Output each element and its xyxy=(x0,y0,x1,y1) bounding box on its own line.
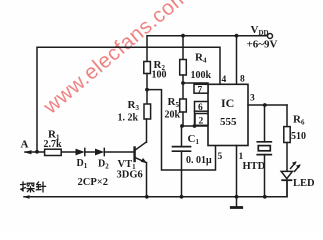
node R4 R5 pin7 junction dot xyxy=(181,81,185,85)
wire pin3 to R6 xyxy=(286,105,288,127)
svg-text:+6~9V: +6~9V xyxy=(247,39,278,51)
LED light arrows xyxy=(291,161,301,171)
label R4 xyxy=(195,52,207,65)
value label 2.7k xyxy=(44,139,63,150)
wire R6 to LED xyxy=(286,143,288,172)
svg-text:D2: D2 xyxy=(98,159,109,171)
label R2 xyxy=(154,59,166,72)
wire R2R3 node to 555 pin 5 xyxy=(147,90,216,170)
value label 555 xyxy=(220,116,237,128)
wire D2 to base of VT1 xyxy=(104,151,134,153)
svg-text:A: A xyxy=(21,139,29,151)
wire VDD rail to R4 xyxy=(182,36,184,60)
wire 555 pin 1 to ground xyxy=(236,146,238,208)
wire VDD top rail xyxy=(147,36,267,62)
svg-text:555: 555 xyxy=(220,116,237,128)
wire D1 to D2 xyxy=(85,151,95,153)
capacitor C1 xyxy=(173,126,191,197)
svg-text:2: 2 xyxy=(199,117,204,127)
wire ground rail xyxy=(23,180,287,199)
svg-text:HTD: HTD xyxy=(243,161,266,172)
svg-text:D1: D1 xyxy=(77,158,88,170)
wire pin6 box to pin2 line xyxy=(194,111,196,126)
diode D1 xyxy=(76,148,85,155)
label A xyxy=(21,139,29,151)
pin label 1 xyxy=(239,152,244,162)
svg-text:R1: R1 xyxy=(48,129,60,142)
wire R2 bottom to R3 top xyxy=(146,74,148,105)
ground symbol xyxy=(231,206,241,209)
value label 3DG6 xyxy=(117,170,143,181)
node R2 R3 junction dot xyxy=(145,88,149,92)
svg-text:510: 510 xyxy=(291,131,306,142)
value label 100 xyxy=(152,70,167,81)
svg-text:6: 6 xyxy=(198,103,203,113)
label VDD xyxy=(251,24,269,37)
resistor R1 xyxy=(45,149,62,155)
node R5 C1 junction dot xyxy=(180,124,184,128)
watermark www.elecfans.com xyxy=(39,0,194,119)
value label 510 xyxy=(291,131,306,142)
pin label 8 xyxy=(240,75,245,85)
label R3 xyxy=(128,99,140,112)
wire junction to 555 pin 7 xyxy=(183,82,208,84)
svg-text:5: 5 xyxy=(218,152,223,162)
wire R3 bottom to collector xyxy=(146,119,148,142)
pin label 4 xyxy=(222,75,227,85)
resistor R3 xyxy=(144,104,151,119)
pin box 6 xyxy=(195,102,209,114)
svg-text:3: 3 xyxy=(250,94,255,104)
node A junction dot xyxy=(35,150,39,154)
wire R4 to R5 xyxy=(182,75,184,99)
value label 20k xyxy=(165,110,181,121)
node pin1 ground rail junction dot xyxy=(235,195,239,199)
wire emitter to ground rail xyxy=(146,163,148,197)
value label +6~9V xyxy=(247,39,278,51)
pin box 7 xyxy=(194,84,208,95)
wire R5 bottom to pin2 line xyxy=(182,112,184,126)
svg-text:C1: C1 xyxy=(188,133,200,146)
value label 0.01u xyxy=(186,155,212,166)
wire 555 pin 3 output xyxy=(248,104,287,106)
label VT1 xyxy=(118,159,137,171)
svg-text:100: 100 xyxy=(152,70,167,81)
pin box 2 xyxy=(195,114,208,127)
value label 2CP x2 xyxy=(78,177,108,188)
node junction pin8 to VDD rail xyxy=(235,34,239,38)
label R6 xyxy=(293,114,305,127)
wire probe input with arrow tip xyxy=(24,150,45,154)
svg-text:8: 8 xyxy=(240,75,245,85)
label probe 探针 xyxy=(21,182,46,192)
resistor R2 xyxy=(144,62,151,74)
pin label 5 xyxy=(218,152,223,162)
svg-text:3DG6: 3DG6 xyxy=(117,170,143,181)
terminal VDD open circle xyxy=(268,34,273,39)
node HTD junction dot xyxy=(263,103,267,107)
LED D3 xyxy=(281,171,292,196)
svg-text:R3: R3 xyxy=(128,99,140,112)
diode D2 xyxy=(95,148,104,155)
node junction R4 to VDD rail xyxy=(181,34,185,38)
svg-text:100k: 100k xyxy=(191,70,212,81)
label C1 xyxy=(188,133,200,146)
label R1 xyxy=(48,129,60,142)
wire probe line A loop to pin 4 xyxy=(37,47,220,151)
label R5 xyxy=(168,96,180,109)
resistor R6 xyxy=(284,127,290,143)
node pin6 link junction dot xyxy=(193,124,197,128)
piezo sounder HTD xyxy=(257,105,271,197)
svg-text:20k: 20k xyxy=(165,110,181,121)
svg-text:VDD: VDD xyxy=(251,24,269,37)
svg-text:IC: IC xyxy=(221,96,234,110)
wire R1 to D1 xyxy=(62,151,76,153)
label IC xyxy=(221,96,234,110)
svg-text:2CP×2: 2CP×2 xyxy=(78,177,108,188)
value label 1.2k xyxy=(118,113,139,124)
label D1 xyxy=(77,158,88,170)
transistor VT1 xyxy=(135,142,147,163)
svg-text:4: 4 xyxy=(222,75,227,85)
resistor R5 xyxy=(180,99,187,112)
node C1 ground junction dot xyxy=(180,195,184,199)
svg-text:R6: R6 xyxy=(293,114,305,127)
node HTD ground junction dot xyxy=(263,195,267,199)
label D2 xyxy=(98,159,109,171)
node emitter junction dot xyxy=(145,195,149,199)
resistor R4 xyxy=(180,60,187,76)
op-amp U1 IC 555 box xyxy=(208,84,248,145)
label LED xyxy=(293,178,315,189)
svg-text:0. 01μ: 0. 01μ xyxy=(186,155,212,166)
svg-text:R4: R4 xyxy=(195,52,207,65)
pin label 3 xyxy=(250,94,255,104)
value label 100k xyxy=(191,70,212,81)
svg-text:7: 7 xyxy=(198,85,203,95)
wire 555 pin 8 xyxy=(236,36,238,85)
svg-text:LED: LED xyxy=(293,178,315,189)
label HTD xyxy=(243,161,266,172)
wire pin 2 line xyxy=(182,125,209,127)
svg-text:R5: R5 xyxy=(168,96,180,109)
svg-text:1. 2k: 1. 2k xyxy=(118,113,139,124)
